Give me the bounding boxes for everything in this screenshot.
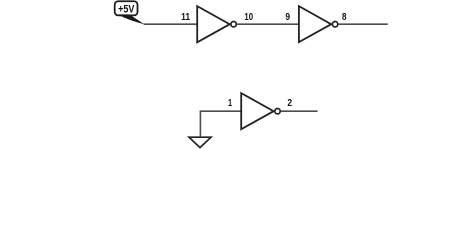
- wire U3 output: [281, 110, 318, 112]
- inverter U3A triangle: [241, 93, 273, 129]
- svg-text:+5V: +5V: [118, 4, 135, 16]
- inverter U1A bubble: [231, 22, 236, 27]
- wire U2 output: [339, 23, 388, 25]
- svg-text:2: 2: [287, 98, 292, 109]
- svg-text:1: 1: [228, 98, 232, 109]
- inverter U2A bubble: [332, 22, 337, 27]
- power flag pointer: [118, 14, 145, 24]
- wire ground to U3 input (corner): [200, 111, 241, 136]
- wire +5V to U1 input: [144, 23, 198, 25]
- svg-text:10: 10: [244, 12, 253, 23]
- inverter U1A triangle: [197, 6, 230, 42]
- svg-text:9: 9: [285, 12, 290, 23]
- svg-text:11: 11: [181, 12, 190, 23]
- power flag +5V: [115, 1, 138, 15]
- wire U1 output to U2 input: [237, 23, 299, 25]
- svg-text:8: 8: [342, 12, 347, 23]
- ground symbol: [189, 137, 211, 147]
- inverter U2A triangle: [299, 6, 331, 42]
- inverter U3A bubble: [275, 109, 280, 114]
